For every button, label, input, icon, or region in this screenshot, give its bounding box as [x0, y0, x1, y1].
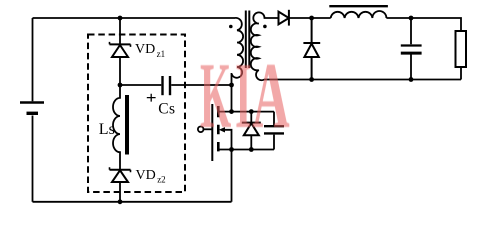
resistor R load [456, 31, 467, 67]
node bottom rail junction [118, 199, 123, 204]
wire body-source link [225, 130, 232, 150]
svg-text:z1: z1 [157, 49, 166, 59]
wire source line [218, 149, 274, 151]
capacitor snubber [264, 126, 284, 133]
node secondary dot [263, 25, 267, 29]
node snubber diode bottom [249, 147, 254, 152]
zener diode VD_z2 [110, 167, 131, 182]
wire Cs right lead [171, 84, 231, 86]
wire left rail lower [32, 116, 34, 202]
wire secondary to inductor [289, 17, 331, 19]
inductor Ls core bar [125, 95, 129, 155]
inductor L output filter [331, 11, 387, 18]
wire Cs left lead [120, 84, 161, 86]
node freewheel diode bottom [309, 77, 314, 82]
diode D2 freewheeling [303, 18, 320, 80]
MOSFET Q gate terminal circle [198, 127, 204, 133]
svg-text:Ls: Ls [99, 121, 115, 138]
MOSFET Q gate bar [211, 104, 213, 161]
svg-text:VD: VD [136, 168, 156, 183]
transformer T core [246, 11, 250, 69]
node primary dot [229, 25, 233, 29]
wire load bottom lead [460, 67, 462, 80]
svg-text:z2: z2 [157, 175, 166, 185]
label VD_z2 [136, 168, 166, 185]
dashed snubber box [88, 35, 185, 193]
node Ls/Cs junction [118, 83, 123, 88]
svg-text:Cs: Cs [158, 101, 175, 118]
wire VD_z1 top lead [119, 18, 121, 44]
wire VD_z1 anode lead [119, 57, 121, 85]
node freewheel diode top [309, 16, 314, 21]
transformer T primary winding [232, 18, 243, 78]
node primary lead / Cs junction [229, 83, 234, 88]
zener diode VD_z1 [110, 42, 131, 57]
node source junction [229, 147, 234, 152]
wire primary bottom lead [231, 73, 233, 112]
diode D output rectifier [279, 10, 289, 26]
wire drain line [218, 111, 274, 113]
battery B [20, 103, 44, 114]
wire snubber diode leads [250, 112, 252, 150]
node drain junction [229, 109, 234, 114]
watermark KIA [200, 49, 231, 143]
inductor Ls winding [113, 85, 120, 170]
node snubber diode top [249, 109, 254, 114]
wire output bottom rail [264, 79, 461, 81]
wire source down lead [231, 150, 233, 202]
wire gate lead [203, 128, 212, 130]
wire left rail [32, 18, 34, 101]
capacitor Cs [163, 76, 171, 95]
capacitor C output [401, 46, 422, 54]
node output cap top [409, 16, 414, 21]
wire VD_z2 anode lead [119, 182, 121, 202]
wire bottom rail [33, 201, 232, 203]
diode VD snubber clamp [242, 123, 261, 136]
label VD_z1 [135, 42, 165, 59]
inductor L core bar [329, 5, 388, 7]
node output cap bottom [409, 77, 414, 82]
MOSFET Q body arrow [219, 127, 225, 132]
wire snubber cap leads [273, 112, 275, 150]
label plus Cs polarity [147, 94, 156, 102]
svg-text:VD: VD [135, 42, 155, 57]
node top rail junction [118, 16, 123, 21]
transformer T secondary winding [251, 12, 279, 80]
wire top output [386, 18, 461, 31]
wire output cap leads [410, 18, 412, 80]
wire top rail [33, 17, 236, 19]
MOSFET Q channel segments [217, 106, 220, 151]
